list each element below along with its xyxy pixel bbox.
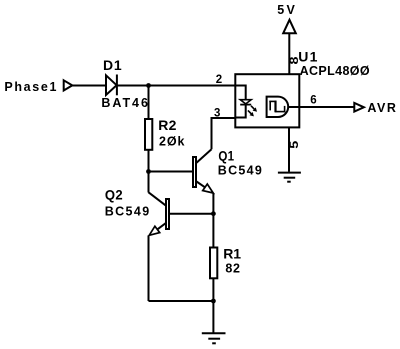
node A junction (146, 83, 151, 88)
wire Q2 collector up to node B (148, 172, 150, 193)
svg-text:2Øk: 2Øk (159, 135, 185, 149)
LED light arrows (248, 106, 257, 117)
node B junction (146, 169, 151, 174)
svg-text:82: 82 (225, 261, 240, 275)
svg-text:BC549: BC549 (218, 164, 262, 178)
input port triangle Phase1 (64, 80, 73, 90)
svg-text:Q1: Q1 (218, 148, 234, 164)
ground symbol bottom (202, 333, 226, 343)
wire D1 cathode to U1 pin 2 (117, 85, 236, 87)
svg-text:8: 8 (289, 56, 301, 65)
transistor Q2 (149, 192, 170, 235)
svg-text:ACPL48ØØ: ACPL48ØØ (300, 64, 370, 78)
opto-coupler U1 box (235, 74, 299, 127)
node D junction (211, 299, 216, 304)
svg-text:BAT46: BAT46 (101, 96, 148, 110)
wire Q2 emitter down to bottom rail (148, 235, 150, 301)
svg-text:R2: R2 (158, 117, 177, 133)
svg-text:AVR: AVR (367, 101, 396, 115)
wire U1 pin 8 to 5V supply (288, 34, 290, 75)
LED inside U1 (240, 100, 251, 105)
5V supply arrow (283, 20, 296, 34)
wire node C to R1 (212, 214, 214, 247)
wire U1 pin 6 to AVR port (288, 106, 354, 108)
svg-text:Phase1: Phase1 (4, 80, 56, 94)
svg-text:U1: U1 (298, 49, 318, 65)
node C junction (211, 211, 216, 216)
wire Phase1 to D1 anode (72, 85, 105, 87)
transistor Q1 (193, 149, 213, 193)
wire R1 to node D (212, 279, 214, 302)
svg-text:5V: 5V (277, 3, 295, 17)
svg-text:BC549: BC549 (105, 205, 150, 219)
wire bottom rail (149, 300, 214, 302)
svg-text:Q2: Q2 (105, 186, 123, 202)
wire R2 to node B (148, 150, 150, 172)
wire node B to Q1 base (149, 171, 193, 173)
wire Q2 base to node C (170, 213, 213, 215)
schmitt hysteresis mark (269, 101, 285, 113)
resistor R1 (210, 248, 217, 279)
wire node A down to R2 (148, 86, 150, 120)
wire Q1 collector to U1 pin 3 (212, 118, 237, 149)
wire U1 pin 5 to ground (288, 127, 290, 172)
svg-text:2: 2 (216, 74, 222, 86)
U1 internal LED wiring (236, 86, 246, 101)
resistor R2 (145, 119, 152, 150)
diode D1 (106, 75, 117, 96)
output port triangle AVR (354, 103, 364, 112)
svg-text:6: 6 (310, 95, 316, 107)
svg-text:D1: D1 (103, 57, 122, 73)
svg-text:3: 3 (214, 108, 220, 120)
photodetector D shape (267, 97, 289, 117)
svg-text:R1: R1 (223, 246, 241, 262)
wire node D to ground (212, 301, 214, 333)
svg-text:5: 5 (289, 140, 301, 149)
wire Q1 emitter down to node C (212, 193, 214, 214)
ground symbol at U1 pin 5 (278, 173, 301, 182)
